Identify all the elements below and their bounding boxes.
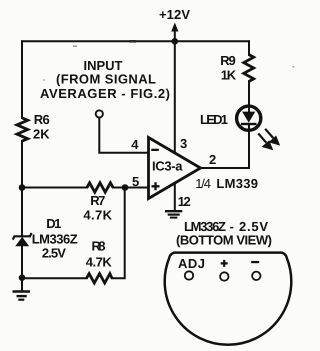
svg-text:2K: 2K: [33, 127, 50, 142]
svg-text:LED1: LED1: [200, 112, 228, 127]
svg-text:R9: R9: [220, 53, 235, 68]
svg-text:4: 4: [131, 137, 139, 152]
svg-text:2: 2: [209, 152, 216, 167]
svg-text:IC3-a: IC3-a: [152, 159, 183, 174]
svg-text:4.7K: 4.7K: [86, 255, 113, 270]
svg-text:(FROM SIGNAL: (FROM SIGNAL: [56, 72, 156, 87]
svg-text:D1: D1: [46, 216, 61, 231]
svg-text:12: 12: [178, 194, 191, 209]
svg-text:R6: R6: [34, 112, 50, 127]
svg-text:ADJ: ADJ: [178, 256, 205, 271]
svg-text:4.7K: 4.7K: [83, 208, 112, 223]
svg-text:AVERAGER - FIG.2): AVERAGER - FIG.2): [40, 86, 170, 101]
svg-text:2.5V: 2.5V: [42, 245, 66, 260]
svg-text:5: 5: [132, 174, 139, 189]
svg-text:1K: 1K: [221, 67, 237, 82]
svg-text:3: 3: [180, 136, 187, 151]
svg-text:R7: R7: [90, 193, 105, 208]
svg-text:+12V: +12V: [159, 7, 190, 22]
svg-text:R8: R8: [92, 239, 106, 254]
svg-text:(BOTTOM VIEW): (BOTTOM VIEW): [176, 233, 272, 248]
svg-text:LM339: LM339: [216, 176, 258, 191]
svg-text:1/4: 1/4: [195, 176, 211, 191]
svg-text:LM336Z: LM336Z: [32, 231, 78, 246]
